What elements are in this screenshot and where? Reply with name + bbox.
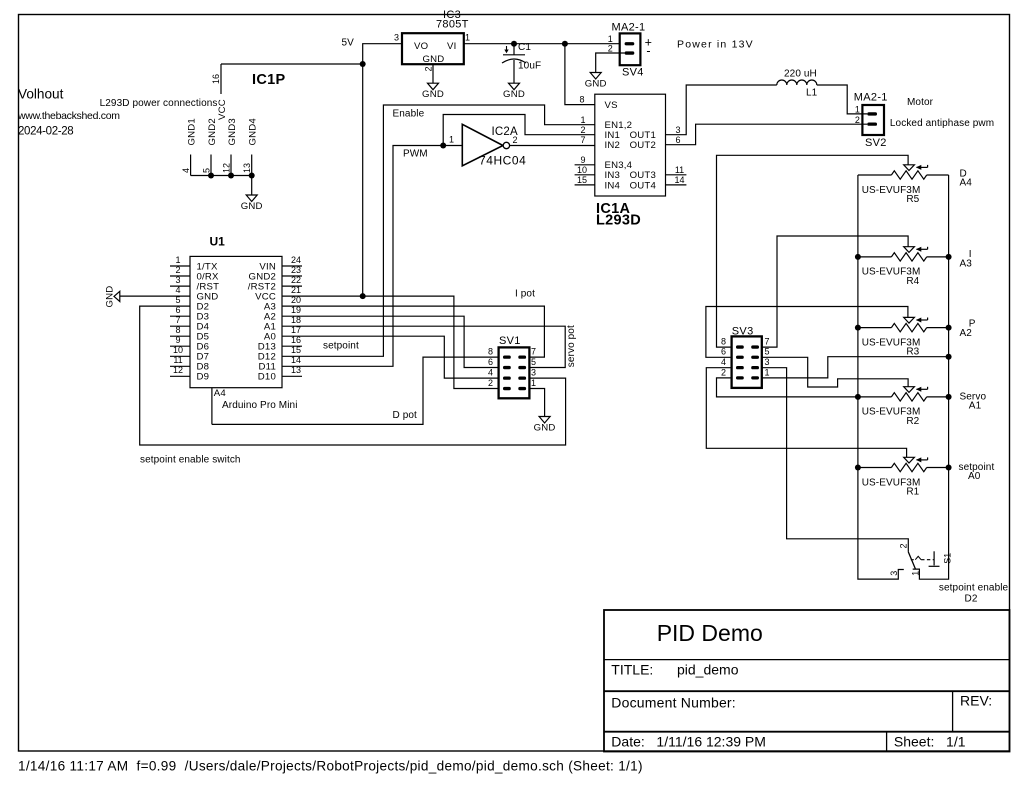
svg-text:GND: GND bbox=[503, 89, 525, 100]
svg-text:7805T: 7805T bbox=[436, 19, 469, 31]
junction C1 tap bbox=[511, 41, 517, 47]
svg-text:6: 6 bbox=[721, 347, 726, 357]
svg-text:1: 1 bbox=[449, 134, 454, 144]
pin GND2 (5) bbox=[210, 155, 212, 176]
capacitor C1 10uF bbox=[502, 42, 541, 83]
svg-text:2024-02-28: 2024-02-28 bbox=[18, 126, 73, 138]
junction VS tap bbox=[562, 41, 568, 47]
svg-text:D10: D10 bbox=[258, 372, 276, 383]
label: servo pot bbox=[566, 325, 577, 367]
svg-text:www.thebackshed.com: www.thebackshed.com bbox=[17, 110, 120, 122]
svg-text:OUT4: OUT4 bbox=[630, 180, 657, 191]
ground symbol under SV1 bbox=[534, 417, 556, 434]
regulator IC3 7805T bbox=[394, 9, 470, 83]
svg-text:A4: A4 bbox=[960, 178, 973, 189]
node labels P / A2 bbox=[960, 319, 976, 340]
svg-text:PID Demo: PID Demo bbox=[657, 620, 763, 646]
junction dots left rail bbox=[855, 254, 861, 471]
potentiometer R2 US-EVUF3M (servo pot) bbox=[858, 387, 949, 427]
ground symbol under SV4 bbox=[585, 73, 607, 90]
svg-text:2: 2 bbox=[721, 367, 726, 377]
svg-text:74HC04: 74HC04 bbox=[479, 153, 526, 167]
svg-text:Volhout: Volhout bbox=[18, 87, 64, 102]
svg-text:4: 4 bbox=[181, 168, 191, 173]
svg-text:20: 20 bbox=[291, 295, 301, 305]
svg-text:L1: L1 bbox=[806, 87, 818, 98]
svg-text:5: 5 bbox=[531, 357, 536, 367]
label: setpoint enable switch bbox=[140, 455, 241, 466]
wire PWM bypass to IN1 bbox=[443, 115, 595, 146]
label: setpoint enable / D2 bbox=[939, 583, 1009, 605]
svg-text:3: 3 bbox=[531, 368, 536, 378]
svg-text:7: 7 bbox=[175, 315, 180, 325]
svg-text:17: 17 bbox=[291, 325, 301, 335]
svg-text:A0: A0 bbox=[968, 471, 981, 482]
svg-text:GND4: GND4 bbox=[248, 118, 259, 146]
junction dots right rail bbox=[946, 254, 952, 471]
svg-text:5: 5 bbox=[201, 168, 211, 173]
svg-text:10: 10 bbox=[577, 165, 587, 175]
svg-text:2: 2 bbox=[855, 115, 860, 125]
wire D pot net (U1 A4 to SV1 pin8) bbox=[212, 357, 499, 424]
svg-text:9: 9 bbox=[580, 155, 585, 165]
inverter IC2A 74HC04 bbox=[449, 124, 526, 167]
svg-text:TITLE:: TITLE: bbox=[611, 662, 653, 678]
wire 5V to SV1 pin2 (U1 VCC) bbox=[302, 296, 499, 388]
node labels Servo / A1 bbox=[960, 392, 987, 412]
label: Locked antiphase pwm bbox=[890, 118, 994, 129]
svg-text:8: 8 bbox=[175, 325, 180, 335]
svg-text:7: 7 bbox=[580, 135, 585, 145]
wire servo pot net (SV3 pin5 to R2 wiper) bbox=[762, 357, 908, 387]
svg-text:Sheet: 1/1: Sheet: 1/1 bbox=[894, 734, 966, 750]
svg-text:5: 5 bbox=[764, 347, 769, 357]
wire L1 to SV2 pin1 bbox=[817, 85, 868, 114]
label: I pot bbox=[515, 289, 535, 300]
svg-text:SV2: SV2 bbox=[865, 137, 887, 149]
svg-text:15: 15 bbox=[291, 345, 301, 355]
svg-text:8: 8 bbox=[579, 95, 584, 105]
svg-text:setpoint enable switch: setpoint enable switch bbox=[140, 455, 241, 466]
svg-text:4: 4 bbox=[721, 357, 726, 367]
svg-text:6: 6 bbox=[175, 305, 180, 315]
pin VCC (16) bbox=[220, 64, 222, 94]
svg-text:VO: VO bbox=[414, 41, 428, 52]
U1 bottom pin A4 bbox=[212, 388, 226, 425]
pin stub IN3 bbox=[575, 174, 595, 176]
svg-text:VCC: VCC bbox=[217, 99, 228, 120]
svg-text:-: - bbox=[646, 44, 650, 58]
svg-text:8: 8 bbox=[488, 347, 493, 357]
svg-text:1/14/16 11:17 AM f=0.99 /Use: 1/14/16 11:17 AM f=0.99 /Users/dale/Proj… bbox=[18, 759, 643, 774]
svg-text:GND3: GND3 bbox=[227, 118, 238, 145]
svg-text:3: 3 bbox=[394, 33, 399, 43]
lever bbox=[908, 552, 915, 569]
svg-text:SV4: SV4 bbox=[622, 67, 644, 79]
svg-text:GND2: GND2 bbox=[207, 118, 218, 145]
svg-text:19: 19 bbox=[291, 305, 301, 315]
svg-text:14: 14 bbox=[674, 175, 684, 185]
svg-text:Enable: Enable bbox=[393, 108, 425, 119]
label: Power in 13V bbox=[677, 39, 754, 51]
wire setpoint enable switch net (U1 D2 to SV1 pin3) bbox=[140, 306, 566, 445]
wire SV1 pin1 to ground bbox=[529, 389, 544, 417]
svg-text:2: 2 bbox=[898, 543, 908, 548]
ground symbol under IC3 bbox=[422, 83, 444, 100]
label: Enable bbox=[393, 108, 425, 119]
svg-text:pid_demo: pid_demo bbox=[677, 662, 739, 678]
svg-text:S1: S1 bbox=[942, 553, 952, 564]
node labels D / A4 bbox=[960, 169, 973, 189]
status bar text bbox=[18, 759, 643, 774]
svg-text:15: 15 bbox=[577, 175, 587, 185]
linkage bbox=[911, 559, 916, 561]
svg-text:7: 7 bbox=[531, 347, 536, 357]
svg-text:3: 3 bbox=[889, 571, 899, 576]
svg-text:13: 13 bbox=[291, 365, 301, 375]
svg-text:A2: A2 bbox=[960, 328, 973, 339]
actuator button bbox=[933, 551, 935, 565]
svg-text:1: 1 bbox=[764, 367, 769, 377]
pin GND3 (12) bbox=[230, 155, 232, 176]
ground symbol under IC1P bbox=[241, 195, 263, 212]
svg-text:GND: GND bbox=[423, 54, 445, 65]
wire SV3 pin1 to GND rail bbox=[762, 357, 949, 378]
wire SV3 pin2 to 5V rail bbox=[717, 378, 858, 397]
MCU U1 Arduino Pro Mini bbox=[190, 235, 282, 388]
svg-text:3: 3 bbox=[764, 357, 769, 367]
svg-text:setpoint: setpoint bbox=[323, 341, 359, 352]
svg-text:3: 3 bbox=[675, 125, 680, 135]
wire SV4 pin2 to ground bbox=[596, 53, 625, 73]
svg-text:1: 1 bbox=[580, 115, 585, 125]
svg-text:servo pot: servo pot bbox=[566, 325, 577, 367]
svg-text:L293D: L293D bbox=[596, 213, 641, 229]
junction PWM at inverter input bbox=[440, 143, 446, 149]
svg-text:2: 2 bbox=[175, 265, 180, 275]
wire Enable net (U1 D12 to EN1,2) bbox=[302, 105, 595, 356]
wire servo pot net (U1 A1 to SV1 pin5) bbox=[302, 326, 565, 367]
wire setpoint net (U1 A0 to SV1 pin4) bbox=[302, 336, 499, 378]
svg-text:3: 3 bbox=[175, 275, 180, 285]
IC1P L293D power gate bbox=[181, 64, 286, 176]
pin GND1 (4) bbox=[190, 155, 192, 176]
connector SV2 MA2-1 motor bbox=[854, 92, 888, 150]
svg-text:Motor: Motor bbox=[907, 97, 934, 108]
svg-text:GND: GND bbox=[241, 201, 263, 212]
svg-text:A3: A3 bbox=[960, 259, 973, 270]
svg-text:21: 21 bbox=[291, 285, 301, 295]
svg-text:MA2-1: MA2-1 bbox=[854, 92, 888, 104]
svg-text:8: 8 bbox=[721, 337, 726, 347]
svg-text:MA2-1: MA2-1 bbox=[612, 22, 646, 34]
svg-text:R4: R4 bbox=[906, 276, 919, 287]
connector SV3 bbox=[721, 326, 770, 388]
svg-text:GND: GND bbox=[422, 89, 444, 100]
svg-text:C1: C1 bbox=[518, 42, 531, 53]
svg-text:6: 6 bbox=[488, 357, 493, 367]
label IC1A bbox=[596, 201, 630, 217]
svg-text:6: 6 bbox=[675, 135, 680, 145]
svg-text:R5: R5 bbox=[906, 194, 919, 205]
wire U1 GND pin to ground bbox=[120, 295, 170, 297]
pin stub OUT4 bbox=[666, 184, 687, 186]
svg-text:1: 1 bbox=[855, 105, 860, 115]
polarity mark bbox=[506, 46, 508, 51]
pin stub EN3,4 bbox=[575, 164, 595, 166]
svg-text:PWM: PWM bbox=[403, 148, 428, 159]
svg-text:1: 1 bbox=[910, 571, 920, 576]
svg-text:GND: GND bbox=[534, 422, 556, 433]
ground symbol at U1 GND pin bbox=[105, 286, 120, 308]
wire OUT1 net to L1 bbox=[666, 85, 777, 135]
junction 5V/IC1P VCC bbox=[360, 61, 366, 67]
switch S1 setpoint enable D2 bbox=[889, 543, 953, 575]
wire GND bus under IC1P bbox=[191, 176, 252, 196]
svg-text:22: 22 bbox=[291, 275, 301, 285]
svg-text:2: 2 bbox=[488, 378, 493, 388]
svg-text:2: 2 bbox=[580, 125, 585, 135]
svg-text:2: 2 bbox=[608, 43, 613, 53]
svg-text:Date: 1/11/16 12:39 PM: Date: 1/11/16 12:39 PM bbox=[611, 734, 766, 750]
svg-text:REV:: REV: bbox=[960, 693, 992, 709]
svg-text:L293D power connections: L293D power connections bbox=[100, 98, 218, 109]
title block bbox=[604, 610, 1010, 752]
svg-text:setpoint enable: setpoint enable bbox=[939, 583, 1009, 594]
pin GND (2) bbox=[432, 64, 434, 83]
svg-text:VI: VI bbox=[447, 41, 456, 52]
wire setpoint net (SV3 pin4 to R1 wiper) bbox=[706, 368, 906, 458]
label: D pot bbox=[393, 410, 418, 421]
svg-text:GND: GND bbox=[585, 78, 607, 89]
label: Arduino Pro Mini bbox=[222, 400, 298, 411]
potentiometer R3 US-EVUF3M (P pot) bbox=[858, 317, 949, 357]
svg-text:14: 14 bbox=[291, 355, 301, 365]
svg-text:7: 7 bbox=[764, 337, 769, 347]
wire 5V net bbox=[221, 44, 402, 296]
svg-text:VS: VS bbox=[605, 100, 618, 111]
label: L293D power connections bbox=[100, 98, 218, 109]
svg-text:23: 23 bbox=[291, 265, 301, 275]
svg-text:4: 4 bbox=[488, 368, 493, 378]
svg-text:16: 16 bbox=[291, 335, 301, 345]
svg-text:1: 1 bbox=[175, 255, 180, 265]
svg-text:10: 10 bbox=[173, 345, 183, 355]
svg-text:2: 2 bbox=[424, 66, 434, 71]
svg-text:Document Number:: Document Number: bbox=[611, 695, 736, 711]
svg-text:Arduino Pro Mini: Arduino Pro Mini bbox=[222, 400, 298, 411]
label L293D bbox=[596, 213, 641, 229]
driver IC1A L293D bbox=[575, 94, 687, 196]
wire P pot net (SV3 pin6 to R3 wiper) bbox=[706, 307, 908, 358]
label: Motor bbox=[907, 97, 934, 108]
wire I pot net (SV3 pin7 to R4 wiper) bbox=[762, 236, 908, 347]
wire setpoint enable net (SV3 pin3 to switch pin2) bbox=[762, 368, 909, 552]
svg-text:A4: A4 bbox=[214, 388, 227, 399]
svg-text:Power in 13V: Power in 13V bbox=[677, 39, 754, 51]
svg-text:R1: R1 bbox=[906, 487, 919, 498]
svg-text:D9: D9 bbox=[197, 372, 210, 383]
U1 left pins 1-12 bbox=[170, 255, 219, 383]
node labels setpoint / A0 bbox=[959, 462, 995, 482]
wire D pot net (SV3 pin8 to R5 wiper) bbox=[717, 155, 909, 347]
svg-text:GND1: GND1 bbox=[186, 118, 197, 145]
svg-text:5V: 5V bbox=[342, 38, 355, 49]
svg-text:A1: A1 bbox=[969, 401, 982, 412]
pin GND4 (13) bbox=[251, 155, 253, 176]
svg-text:D2: D2 bbox=[965, 594, 978, 605]
svg-text:I pot: I pot bbox=[515, 289, 535, 300]
pin stub OUT3 bbox=[666, 174, 687, 176]
junction dots IC1P bus bbox=[208, 173, 255, 179]
svg-text:D pot: D pot bbox=[393, 410, 418, 421]
svg-text:12: 12 bbox=[173, 365, 183, 375]
svg-text:220 uH: 220 uH bbox=[784, 68, 817, 79]
potentiometer R4 US-EVUF3M (I pot) bbox=[858, 247, 949, 287]
author note Volhout bbox=[17, 87, 120, 138]
wire inverter output to IN2 bbox=[510, 145, 595, 147]
svg-text:OUT2: OUT2 bbox=[630, 140, 656, 151]
potentiometer R5 US-EVUF3M (D pot) bbox=[858, 165, 949, 205]
wire left pot rail bbox=[858, 175, 904, 579]
connector SV4 MA2-1 power in bbox=[608, 22, 652, 79]
svg-text:IN2: IN2 bbox=[605, 140, 621, 151]
svg-text:SV1: SV1 bbox=[499, 335, 521, 347]
svg-text:12: 12 bbox=[221, 163, 231, 173]
wire A2 net (U1 A2 to SV1 pin6) bbox=[302, 316, 499, 367]
junction 5V at U1 VCC row bbox=[360, 293, 366, 299]
label: setpoint bbox=[323, 341, 359, 352]
svg-text:18: 18 bbox=[291, 315, 301, 325]
svg-text:R3: R3 bbox=[906, 347, 919, 358]
svg-text:1: 1 bbox=[465, 33, 470, 43]
svg-text:Locked antiphase pwm: Locked antiphase pwm bbox=[890, 118, 994, 129]
svg-text:9: 9 bbox=[175, 335, 180, 345]
label: PWM bbox=[403, 148, 428, 159]
inductor L1 220uH bbox=[777, 68, 818, 98]
wire 13V rail from IC3 VI to SV4 bbox=[464, 43, 620, 45]
wire VS net (13V to IC1A VS pin 8) bbox=[565, 44, 595, 105]
svg-text:GND: GND bbox=[105, 286, 116, 308]
wire right pot rail bbox=[913, 175, 949, 579]
wire PWM net (U1 D11 to inverter input) bbox=[302, 146, 462, 367]
node labels I / A3 bbox=[960, 249, 973, 270]
potentiometer R1 US-EVUF3M (setpoint pot) bbox=[858, 457, 949, 497]
ground symbol under C1 bbox=[503, 83, 525, 100]
wire I pot net (U1 A3 to SV1 pin7) bbox=[302, 306, 544, 357]
svg-text:IC2A: IC2A bbox=[492, 126, 518, 138]
svg-text:11: 11 bbox=[675, 165, 684, 175]
U1 right pins 24-13 bbox=[248, 255, 302, 383]
pin stub IN4 bbox=[575, 184, 595, 186]
svg-text:11: 11 bbox=[173, 355, 182, 365]
svg-text:1: 1 bbox=[531, 378, 536, 388]
node 5V bbox=[342, 38, 355, 49]
svg-text:4: 4 bbox=[175, 285, 180, 295]
svg-text:5: 5 bbox=[175, 295, 180, 305]
svg-text:16: 16 bbox=[211, 74, 221, 84]
svg-text:10uF: 10uF bbox=[518, 61, 541, 72]
svg-text:24: 24 bbox=[291, 255, 301, 265]
wire OUT2 net to SV2 pin2 bbox=[666, 124, 868, 145]
svg-text:IC1P: IC1P bbox=[252, 72, 285, 88]
connector SV1 bbox=[488, 335, 536, 398]
svg-text:R2: R2 bbox=[906, 416, 919, 427]
svg-text:U1: U1 bbox=[210, 235, 226, 249]
svg-text:IN4: IN4 bbox=[605, 180, 621, 191]
svg-text:13: 13 bbox=[242, 163, 252, 173]
